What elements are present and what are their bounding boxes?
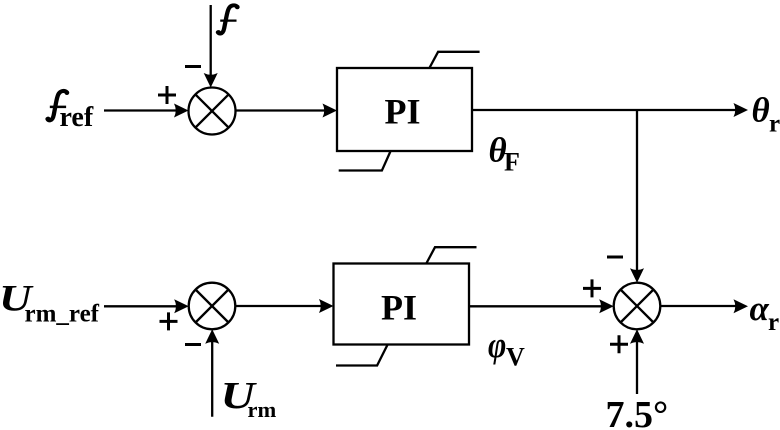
limiter mark U1 bottom (339, 151, 391, 171)
svg-text:φ: φ (488, 326, 506, 365)
plus sign (f_ref input) (158, 86, 176, 104)
wire 7.5deg up into S3 (636, 340, 638, 394)
svg-text:V: V (506, 342, 525, 371)
svg-text:PI: PI (385, 92, 421, 132)
wire U2 output to summer S3 (469, 305, 602, 307)
svg-text:r: r (768, 309, 779, 336)
arrowhead at alpha_r (734, 299, 749, 313)
minus sign (f input) (185, 65, 201, 68)
summing junction S1 (189, 88, 236, 135)
svg-text:PI: PI (381, 288, 417, 328)
minus sign (U_rm input) (185, 343, 201, 346)
plus sign (7.5 deg input) (610, 335, 628, 353)
PI controller U2 (334, 264, 470, 345)
wire U1 output to theta_r (472, 109, 736, 111)
plus sign (U_rm_ref input) (160, 312, 178, 330)
svg-text:F: F (504, 147, 520, 176)
node f_ref label (46, 91, 69, 121)
wire f down into S1 (210, 5, 212, 77)
limiter mark U2 bottom (336, 344, 388, 365)
arrowhead into S2 left (174, 299, 189, 313)
wire U_rm up into S2 (211, 340, 213, 417)
arrowhead into S1 left (174, 104, 189, 118)
svg-text:α: α (750, 289, 770, 328)
svg-text:r: r (769, 110, 780, 137)
wire f_ref to summer S1 (104, 109, 176, 111)
arrowhead into S1 top (204, 73, 218, 88)
minus sign (branch into S3) (607, 256, 623, 259)
plus sign (PI2 output into S3) (583, 279, 601, 297)
svg-text:rm_ref: rm_ref (25, 301, 100, 328)
arrowhead into S3 top (630, 268, 644, 283)
wire U_rm_ref to summer S2 (104, 305, 176, 307)
arrowhead into U2 (319, 299, 334, 313)
svg-text:7.5°: 7.5° (606, 394, 669, 430)
arrowhead into S3 left (599, 299, 614, 313)
arrowhead into S3 bottom (630, 329, 644, 344)
limiter mark U1 top (429, 52, 479, 68)
node f label (216, 5, 239, 34)
wire S1 to PI block U1 (236, 109, 326, 111)
wire branch down to summer S3 (636, 110, 638, 272)
svg-text:ref: ref (60, 102, 94, 133)
arrowhead into U1 (323, 104, 338, 118)
wire S2 to PI block U2 (235, 305, 321, 307)
PI controller U1 (337, 68, 472, 151)
arrowhead into S2 bottom (205, 329, 219, 344)
arrowhead at theta_r (734, 103, 749, 117)
wire S3 to alpha_r (660, 305, 736, 307)
summing junction S2 (189, 283, 236, 330)
svg-text:θ: θ (752, 90, 770, 129)
svg-text:rm: rm (248, 397, 277, 422)
limiter mark U2 top (426, 247, 476, 263)
summing junction S3 (614, 283, 661, 330)
